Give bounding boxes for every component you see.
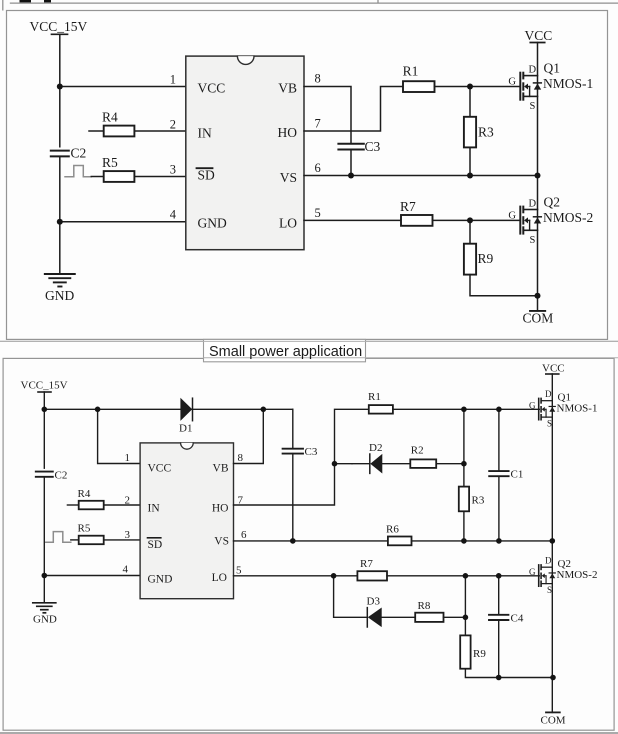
pulse source symbol (bottom, gray) (46, 532, 71, 543)
svg-text:D3: D3 (367, 596, 381, 608)
svg-text:Small power application: Small power application (209, 344, 362, 360)
wire: Q1/Q2 main bus (bottom) (551, 374, 553, 712)
wire: pin4 GND row (44, 575, 140, 577)
svg-text:7: 7 (315, 117, 321, 131)
svg-text:R2: R2 (411, 445, 424, 457)
svg-text:D2: D2 (369, 442, 382, 454)
svg-text:D1: D1 (179, 423, 192, 435)
svg-text:VS: VS (280, 170, 297, 185)
IC U1 notch (237, 56, 254, 64)
svg-text:R5: R5 (102, 155, 118, 170)
svg-text:GND: GND (45, 288, 74, 303)
svg-text:R7: R7 (400, 199, 416, 214)
svg-text:NMOS-1: NMOS-1 (557, 403, 598, 415)
junction dots (top schematic) (57, 84, 541, 299)
wire: branch down to pin1 VCC (98, 409, 141, 463)
capacitor C3 (bottom) (283, 449, 303, 454)
resistor R3 (bottom, vertical) (459, 487, 469, 512)
junction dots (bottom schematic) (42, 407, 556, 681)
wire: D2 tap on HO vertical (335, 463, 353, 465)
resistor R5 (91, 176, 103, 178)
svg-text:SD: SD (148, 539, 163, 551)
wire: R1 to Q1 gate (435, 86, 520, 88)
capacitor C2 (plates interrupt bus) (51, 148, 69, 157)
cropped title text descenders (20, 0, 52, 2)
svg-text:R1: R1 (403, 64, 419, 79)
capacitor C1 (489, 471, 508, 476)
wire: C1 vertical (498, 409, 500, 471)
wire: C3 bottom to VS line (350, 150, 352, 176)
svg-text:R4: R4 (102, 110, 118, 125)
svg-text:G: G (508, 210, 516, 221)
svg-text:GND: GND (198, 216, 227, 231)
svg-text:3: 3 (125, 529, 131, 541)
wire: C4 vertical (498, 576, 500, 615)
wire: pin5 LO to R7 (304, 219, 401, 221)
svg-text:D: D (545, 389, 552, 399)
svg-text:2: 2 (170, 118, 176, 132)
wire: pin1 VCC from bus to IC (60, 86, 186, 88)
diode D3 (pointing left) (366, 608, 368, 627)
node VCC_15V rail bar (bottom schematic) (38, 391, 51, 393)
wire: pin5 LO line to R7 (234, 575, 358, 577)
svg-text:C2: C2 (71, 146, 87, 161)
node VCC_15V power rail bar (top) (52, 33, 68, 35)
svg-text:SD: SD (198, 168, 216, 183)
svg-text:G: G (529, 567, 536, 577)
resistor R5 (bottom) (71, 539, 79, 541)
resistor R6 (388, 537, 412, 546)
wire: C3 chain down to VS line (292, 409, 294, 448)
svg-text:7: 7 (238, 495, 244, 507)
transistor Q2 (top, NMOS-2) (520, 207, 541, 234)
node COM terminal bar (530, 310, 545, 312)
svg-text:VCC: VCC (525, 28, 553, 43)
svg-text:C3: C3 (365, 139, 381, 154)
wire: pin7 HO right, up to gate rail (234, 409, 369, 505)
wire: pin8 VB to C3 top (304, 87, 351, 144)
IC U1 body (186, 56, 304, 250)
separator line at very bottom of page (0, 732, 618, 734)
wire: D3 branch down from LO (334, 576, 367, 618)
wire: pin6 VS line (304, 175, 538, 177)
svg-text:LO: LO (279, 216, 297, 231)
svg-text:LO: LO (212, 572, 227, 584)
resistor R2 (410, 459, 436, 468)
svg-text:IN: IN (198, 126, 212, 141)
svg-text:D: D (545, 556, 552, 566)
wire: pin6 VS line with R6 (234, 540, 388, 542)
svg-text:6: 6 (315, 161, 321, 175)
svg-text:NMOS-1: NMOS-1 (543, 76, 593, 91)
svg-text:4: 4 (170, 208, 177, 222)
resistor R4 (89, 130, 104, 132)
svg-text:R5: R5 (78, 523, 91, 535)
svg-text:5: 5 (315, 206, 321, 220)
resistor R9 (bottom, vertical) (460, 635, 470, 668)
svg-text:GND: GND (33, 614, 57, 626)
frame of top schematic (7, 11, 608, 340)
svg-text:VCC: VCC (542, 363, 565, 375)
svg-text:R1: R1 (368, 391, 381, 403)
resistor R1 (403, 81, 435, 92)
SD overline (pin 3 label bar) (197, 167, 213, 169)
svg-text:COM: COM (541, 715, 566, 727)
svg-text:4: 4 (123, 564, 129, 576)
svg-text:HO: HO (212, 503, 229, 515)
svg-text:NMOS-2: NMOS-2 (557, 569, 598, 581)
svg-text:R9: R9 (478, 251, 494, 266)
svg-text:S: S (547, 585, 552, 595)
wire: VCC_15V vertical bus (59, 34, 61, 273)
resistor R9 (vertical) (469, 220, 471, 243)
cropped title box remnant (top edge of page) (3, 0, 618, 11)
svg-text:C4: C4 (511, 613, 524, 625)
resistor R7 (401, 215, 433, 226)
svg-text:S: S (530, 235, 536, 246)
svg-text:GND: GND (148, 574, 173, 586)
wire: gate vertical with R3 (463, 409, 465, 486)
svg-text:R8: R8 (418, 600, 431, 612)
wire: left vertical bus (43, 392, 45, 603)
svg-text:6: 6 (241, 529, 247, 541)
node VCC rail bar (bottom right) (546, 373, 559, 375)
svg-text:1: 1 (125, 452, 131, 464)
transistor Q1 (bottom, NMOS-1) (539, 398, 556, 419)
svg-text:G: G (529, 400, 536, 410)
svg-text:C1: C1 (511, 469, 524, 481)
resistor R4 (bottom) (67, 504, 78, 506)
node COM terminal bar (bottom) (546, 711, 560, 713)
svg-text:VB: VB (213, 463, 229, 475)
svg-text:D: D (529, 65, 537, 76)
svg-text:3: 3 (170, 163, 176, 177)
transistor Q2 (bottom, NMOS-2) (539, 565, 556, 586)
svg-text:S: S (530, 101, 536, 112)
svg-text:C2: C2 (55, 470, 68, 482)
ground symbol GND (45, 274, 75, 287)
resistor R7 (bottom) (357, 571, 387, 580)
wire: top rail to C3 corner (44, 408, 292, 410)
svg-text:VCC_15V: VCC_15V (30, 19, 88, 34)
labels: top schematic (30, 19, 594, 326)
node VCC rail bar (top right) (530, 42, 544, 44)
wire: pin4 GND from bus to IC (60, 221, 186, 223)
svg-text:VS: VS (214, 536, 229, 548)
wire: pin8 VB up to top rail (234, 409, 264, 463)
svg-text:R3: R3 (472, 495, 485, 507)
svg-text:2: 2 (125, 495, 131, 507)
svg-text:5: 5 (236, 565, 242, 577)
svg-text:HO: HO (278, 125, 298, 140)
pulse source symbol (gray) (65, 166, 91, 177)
svg-text:R9: R9 (473, 648, 486, 660)
svg-text:VCC: VCC (198, 81, 226, 96)
svg-text:COM: COM (523, 311, 554, 326)
svg-text:R6: R6 (386, 524, 399, 536)
IC U2 body (bottom) (140, 443, 233, 599)
wire: pin7 HO right then up to R1 row (304, 87, 403, 132)
resistor R8 (415, 613, 443, 622)
IC U2 notch (181, 443, 194, 449)
wire: R9 vertical chain (464, 576, 466, 636)
capacitor C2 (bottom schematic) (36, 469, 53, 477)
diode D1 (on top rail, pointing right) (180, 398, 192, 421)
ground symbol GND (bottom) (33, 603, 56, 613)
svg-text:VCC: VCC (148, 463, 172, 475)
resistor R1 (bottom) (369, 405, 393, 414)
svg-text:Q2: Q2 (544, 195, 561, 210)
frame of bottom schematic (3, 358, 614, 730)
transistor Q1 (top, NMOS-1) (520, 73, 541, 100)
svg-text:G: G (508, 77, 516, 88)
labels: bottom schematic (21, 363, 598, 727)
svg-text:R4: R4 (78, 488, 91, 500)
svg-text:C3: C3 (305, 446, 318, 458)
svg-text:1: 1 (170, 73, 176, 87)
svg-text:D: D (529, 198, 537, 209)
svg-text:Q1: Q1 (544, 61, 561, 76)
separator line under top frame (0, 340, 618, 342)
svg-text:NMOS-2: NMOS-2 (543, 210, 593, 225)
svg-text:VCC_15V: VCC_15V (21, 380, 68, 392)
svg-text:VB: VB (278, 81, 297, 96)
wire: Q1/Q2 main drain-source bus (537, 43, 539, 296)
resistor R3 (vertical) (469, 87, 471, 117)
svg-text:S: S (547, 419, 552, 429)
SD overline (bottom IC) (148, 537, 161, 539)
svg-text:8: 8 (238, 452, 244, 464)
svg-text:IN: IN (148, 503, 161, 515)
caption box: Small power application (0, 339, 618, 361)
capacitor C3 (338, 144, 363, 150)
svg-text:8: 8 (315, 72, 321, 86)
capacitor C4 (489, 615, 508, 620)
svg-text:R3: R3 (478, 125, 494, 140)
svg-text:R7: R7 (360, 558, 373, 570)
diode D2 (pointing left) (352, 463, 370, 465)
